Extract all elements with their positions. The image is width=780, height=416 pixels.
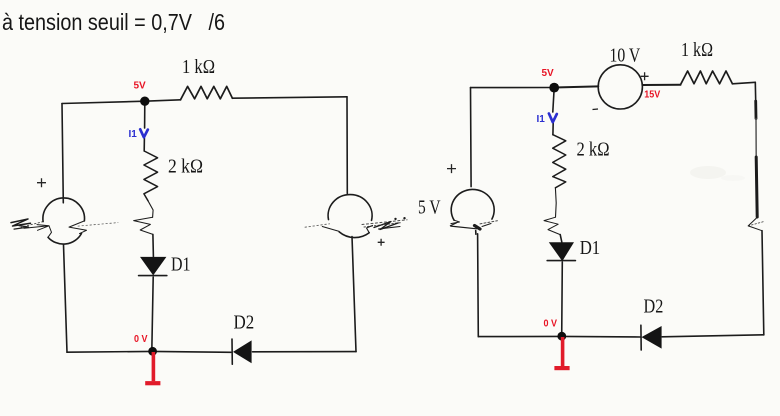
svg-text:D2: D2: [234, 312, 255, 334]
svg-text:I1: I1: [129, 129, 138, 140]
svg-text:1 kΩ: 1 kΩ: [182, 56, 215, 78]
svg-text:0 V: 0 V: [134, 334, 148, 345]
svg-text:5 V: 5 V: [418, 197, 441, 219]
svg-text:1 kΩ: 1 kΩ: [681, 39, 713, 61]
svg-text:5V: 5V: [542, 68, 555, 79]
svg-text:I1: I1: [537, 114, 546, 125]
svg-text:à tension seuil = 0,7V /6: à tension seuil = 0,7V /6: [2, 9, 225, 35]
svg-text:D1: D1: [171, 254, 191, 276]
svg-text:D2: D2: [644, 296, 664, 318]
svg-text:D1: D1: [580, 237, 601, 259]
svg-text:10 V: 10 V: [610, 45, 641, 67]
svg-text:15V: 15V: [644, 90, 660, 101]
svg-text:2 kΩ: 2 kΩ: [168, 156, 203, 178]
svg-text:5V: 5V: [134, 81, 147, 92]
svg-text:0 V: 0 V: [544, 319, 558, 330]
svg-text:2 kΩ: 2 kΩ: [577, 139, 610, 161]
